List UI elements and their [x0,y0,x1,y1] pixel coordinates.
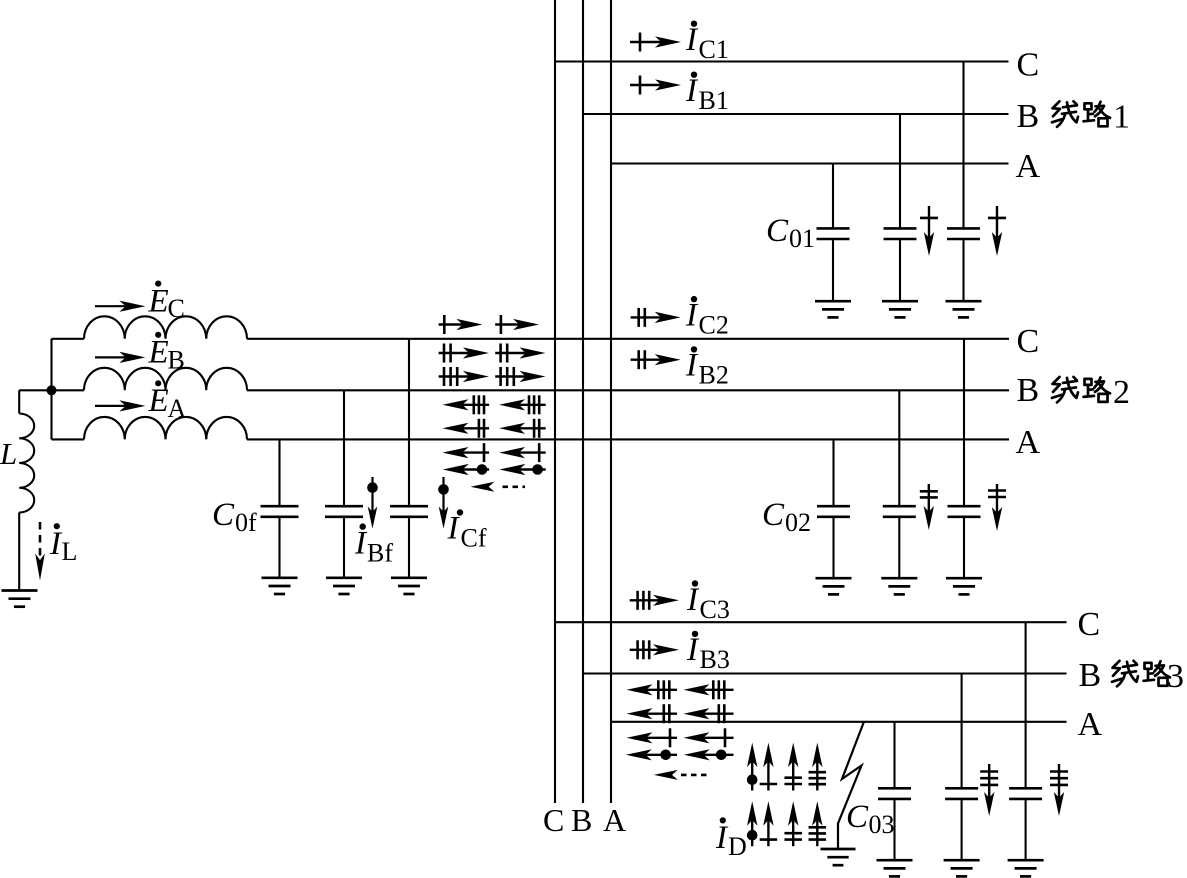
ground (C01 A) [815,300,851,303]
svg-text:A: A [1016,424,1041,461]
wire phase A (source to line 2) [247,438,1009,440]
ground (C01 C) [946,300,982,303]
svg-text:3: 3 [1167,658,1184,695]
svg-text:B2: B2 [699,361,729,390]
fault lightning bolt [838,722,864,850]
inductor L (arc suppression coil) [19,414,34,513]
svg-text:I: I [715,820,729,856]
capacitor C01 phase B [884,114,917,301]
svg-text:L: L [0,436,17,471]
current IL dashed arrow [35,522,45,581]
capacitor C01 phase A [817,164,850,302]
svg-text:02: 02 [785,508,811,537]
current IC2 arrow (2 ticks) [631,316,665,318]
svg-text:C: C [168,294,185,323]
line3 current arrows row 2 (2 ticks, leftward) [627,704,734,723]
capacitor C0f phase C [390,339,428,578]
current arrows row 2 (2 ticks, rightward) [439,344,546,363]
wire phase B (source to line 2) [247,389,1009,391]
wire neutral to inductor L [19,390,51,413]
capacitor C03 phase A [878,722,911,860]
svg-text:B1: B1 [699,86,729,115]
current arrow beside C01 phase B (1 tick) [928,206,930,242]
current IC3 arrow (3 ticks) [630,599,663,601]
svg-text:D: D [728,832,747,861]
line3 current arrows row 1 (3 ticks, leftward) [627,680,734,699]
svg-text:I: I [354,526,368,562]
svg-text:I: I [686,582,700,618]
ground (C0f B) [326,576,362,579]
arrow EB direction [95,352,145,363]
fault current ID arrows group 1 (upward) [747,743,826,791]
svg-text:C: C [1078,606,1101,643]
current IB2 arrow (2 ticks) [631,359,665,361]
svg-text:A: A [1016,148,1041,185]
ground (C01 B) [882,300,918,303]
current IB3 arrow (3 ticks) [630,649,663,651]
wire phase C (source to line 2) [247,338,1009,340]
current arrows row 1 (1 tick, rightward, above phase C) [439,315,539,334]
label C02 [762,497,811,537]
label IL [49,523,77,566]
bus B (vertical busbar) [582,0,584,803]
wire line3 phase B [583,672,1067,674]
label ID [715,817,747,861]
svg-text:Bf: Bf [367,539,393,568]
ground (C0f A) [262,576,298,579]
svg-text:C: C [846,799,869,835]
svg-text:A: A [603,802,626,838]
current arrow row 8 (dashed, leftward) [470,482,525,492]
svg-text:B: B [1017,98,1040,135]
svg-text:1: 1 [1113,98,1130,135]
current arrow beside C03 phase B (3 ticks) [988,764,990,802]
svg-text:L: L [62,537,78,566]
svg-text:0f: 0f [235,508,257,537]
svg-text:B3: B3 [700,645,730,674]
svg-text:E: E [148,283,169,319]
svg-text:B: B [1017,372,1040,409]
current arrow beside C02 phase B (2 ticks) [928,484,930,516]
ground (below L) [2,589,38,592]
capacitor C01 phase C [947,62,980,302]
svg-text:C3: C3 [700,595,730,624]
svg-text:I: I [685,348,699,384]
svg-text:I: I [447,511,461,547]
neutral node [47,385,57,395]
capacitor C03 phase C [1009,622,1042,860]
winding EA (source phase A) [52,417,248,440]
label EB [148,332,185,375]
capacitor C0f phase B [325,390,363,578]
current IBf arrow [367,477,378,529]
ground (C0f C) [391,576,427,579]
label C03 [846,799,895,839]
svg-text:I: I [685,22,699,58]
svg-text:A: A [1078,706,1103,743]
fault current ID arrows group 2 (upward) [747,801,826,846]
capacitor C02 phase B [883,390,916,578]
ground (C03 A) [877,859,913,862]
arrow EA direction [95,400,145,411]
winding EC (source phase C) [52,316,248,339]
label ICf [447,509,487,552]
svg-text:E: E [148,335,169,371]
svg-text:C1: C1 [699,35,729,64]
capacitor C0f phase A [261,439,299,577]
current arrows row 7 (leftward with node dots) [443,464,546,475]
wire line1 phase C [555,60,1009,62]
svg-text:I: I [685,297,699,333]
svg-text:I: I [685,73,699,109]
ground (C03 B) [944,859,980,862]
ground (C02 B) [881,577,917,580]
wire neutral vertical [50,339,52,440]
bus C (vertical busbar) [554,0,556,803]
current arrow beside C02 phase C (2 ticks) [996,484,998,517]
current IC1 arrow (1 tick) [630,41,665,43]
winding EB (source phase B) [52,368,248,391]
svg-text:C: C [212,497,235,533]
ground (C02 A) [816,577,852,580]
wire line1 phase B [583,113,1009,115]
current arrow beside C03 phase C (3 ticks) [1058,764,1060,802]
capacitor C02 phase A [817,439,850,578]
svg-text:A: A [168,394,187,423]
current arrows row 3 (3 ticks, rightward) [439,367,546,386]
capacitor C03 phase B [945,674,978,861]
svg-text:2: 2 [1113,374,1130,411]
svg-text:C: C [762,497,785,533]
ground (C03 C) [1008,859,1044,862]
line3 current arrow row 5 (dashed, leftward) [654,770,709,780]
ground (fault point) [821,848,856,851]
label C01 [766,213,815,253]
label line3 name (xianlu 3) [1112,658,1184,695]
svg-text:C: C [1017,47,1040,84]
current arrows row 4 (3 ticks, leftward) [443,395,546,414]
svg-text:B: B [571,802,592,838]
svg-text:B: B [1079,657,1102,694]
current IB1 arrow (1 tick) [630,84,665,86]
label line1 name (xianlu 1) [1052,98,1130,135]
svg-text:C: C [543,802,564,838]
wire line3 phase C [555,621,1067,623]
ground (C02 C) [946,577,982,580]
current ICf arrow [438,477,449,529]
capacitor C02 phase C [948,339,981,578]
wire L to ground [18,513,20,591]
svg-text:I: I [686,632,700,668]
svg-text:C: C [766,213,789,249]
svg-text:C2: C2 [699,310,729,339]
svg-text:E: E [148,383,169,419]
line3 current arrows row 3 (1 tick, leftward, below phase A) [627,728,734,747]
svg-text:03: 03 [869,810,895,839]
wire line1 phase A [611,162,1009,164]
label EA [148,380,187,423]
line3 current arrows row 4 (leftward with node dots) [626,749,734,760]
svg-text:01: 01 [789,224,815,253]
svg-text:B: B [168,345,185,374]
arrow EC direction [95,301,145,312]
svg-text:Cf: Cf [461,524,487,553]
svg-text:C: C [1017,323,1040,360]
current arrows row 6 (1 tick, leftward, below phase A) [443,443,546,462]
wire line3 phase A [611,721,1067,723]
current arrow beside C01 phase C (1 tick) [996,206,998,242]
label IBf [354,523,393,567]
label line2 name (xianlu 2) [1052,374,1130,411]
bus A (vertical busbar) [610,0,612,803]
current arrows row 5 (2 ticks, leftward) [443,419,546,438]
label EC [148,281,185,324]
label C0f [212,497,257,537]
